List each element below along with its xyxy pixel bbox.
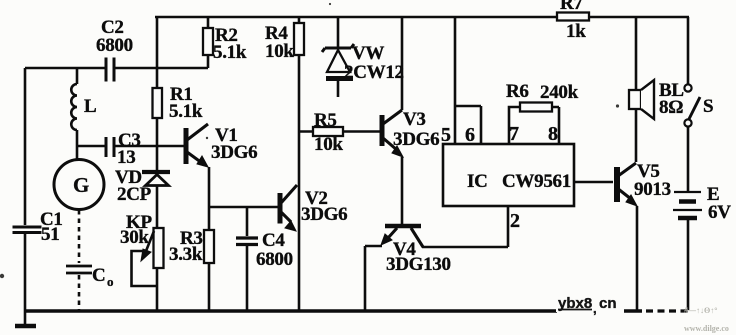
transistor V3 3DG6	[382, 109, 439, 224]
resistor R6	[506, 81, 579, 144]
svg-text:30k: 30k	[120, 227, 149, 248]
transistor V1 3DG6	[157, 124, 257, 167]
wire R1 to C3 node	[156, 118, 159, 170]
capacitor Co (dashed leads)	[66, 210, 114, 311]
svg-text:3DG6: 3DG6	[211, 142, 257, 163]
svg-text:1k: 1k	[566, 21, 586, 42]
svg-text:8Ω: 8Ω	[659, 97, 683, 118]
svg-text:S: S	[703, 96, 713, 117]
svg-text:cn: cn	[599, 295, 617, 312]
svg-text:7: 7	[509, 123, 519, 145]
switch S	[684, 17, 713, 127]
wire pin6 link	[455, 106, 481, 144]
svg-text:8: 8	[548, 123, 558, 145]
svg-text:C: C	[92, 265, 105, 286]
transistor V5 9013	[617, 161, 671, 310]
svg-text:L: L	[84, 96, 96, 117]
zener diode VW	[322, 17, 404, 97]
scan specks	[0, 3, 619, 278]
svg-text:6: 6	[465, 124, 475, 146]
svg-text:CW9561: CW9561	[502, 171, 571, 192]
wire V3 collector column	[401, 17, 404, 110]
svg-text:R7: R7	[560, 0, 583, 14]
svg-text:6V: 6V	[708, 202, 731, 223]
svg-text:R6: R6	[506, 81, 529, 102]
svg-text:2CP: 2CP	[117, 184, 152, 205]
svg-text:#—↑↓ʘ↑°: #—↑↓ʘ↑°	[684, 306, 717, 315]
svg-text:5.1k: 5.1k	[169, 101, 203, 122]
capacitor C4	[236, 207, 293, 311]
resistor R2	[203, 17, 247, 68]
inductor L	[71, 68, 96, 161]
svg-text:10k: 10k	[314, 134, 343, 155]
svg-text:IC: IC	[467, 171, 488, 192]
capacitor C2	[25, 17, 208, 82]
transistor V2 3DG6	[280, 185, 347, 231]
corner gray watermark	[684, 306, 729, 333]
svg-text:2: 2	[510, 210, 520, 232]
svg-text:10k: 10k	[265, 41, 294, 62]
svg-text:6800: 6800	[256, 249, 293, 270]
resistor R3	[169, 228, 214, 265]
wire top supply rail	[155, 16, 689, 19]
resistor R4	[265, 17, 304, 62]
svg-text:9013: 9013	[634, 179, 671, 200]
resistor R5	[299, 110, 380, 155]
svg-text:2CW12: 2CW12	[344, 62, 404, 83]
svg-text:www.dilge.co: www.dilge.co	[684, 324, 729, 333]
svg-text:240k: 240k	[540, 82, 579, 103]
wire V1 emitter to V2 base	[209, 206, 279, 209]
svg-text:5.1k: 5.1k	[213, 42, 247, 63]
svg-text:3DG130: 3DG130	[386, 254, 451, 275]
transistor V4 3DG130	[365, 226, 508, 311]
svg-text:o: o	[107, 274, 114, 289]
svg-text:6800: 6800	[96, 35, 133, 56]
potentiometer KP 30k	[120, 212, 164, 311]
svg-text:,: ,	[593, 301, 597, 316]
svg-text:R5: R5	[314, 110, 337, 131]
svg-text:C4: C4	[262, 230, 285, 251]
svg-text:5: 5	[441, 124, 451, 146]
svg-text:3.3k: 3.3k	[169, 244, 203, 265]
wire IC pin 2	[507, 206, 510, 247]
wire IC output to V5 base	[574, 181, 613, 184]
wire V1 emitter column to bottom rail	[208, 167, 211, 311]
svg-text:V3: V3	[403, 109, 426, 130]
svg-text:3DG6: 3DG6	[393, 129, 439, 150]
capacitor C1	[13, 68, 63, 311]
capacitor C3	[78, 130, 157, 168]
watermark ybx8.cn	[556, 294, 624, 316]
wire R4 bottom column down to bottom rail	[298, 55, 301, 311]
svg-text:3DG6: 3DG6	[301, 204, 347, 225]
IC U1 CW9561	[443, 144, 574, 206]
resistor R1	[153, 84, 203, 122]
wire left column x157 (C2 node to R1)	[156, 17, 159, 88]
speaker BL	[629, 17, 684, 162]
wire bottom ground rail	[25, 309, 557, 313]
diode VD 2CP	[115, 167, 170, 228]
ground terminal tick	[24, 311, 27, 324]
wire IC pin5 feed column	[454, 17, 457, 144]
svg-text:G: G	[73, 173, 89, 197]
svg-text:VW: VW	[352, 43, 384, 64]
microphone G	[54, 160, 104, 210]
resistor R7	[557, 0, 589, 42]
battery E 6V	[673, 127, 731, 310]
svg-text:51: 51	[41, 224, 59, 245]
svg-text:13: 13	[117, 147, 135, 168]
